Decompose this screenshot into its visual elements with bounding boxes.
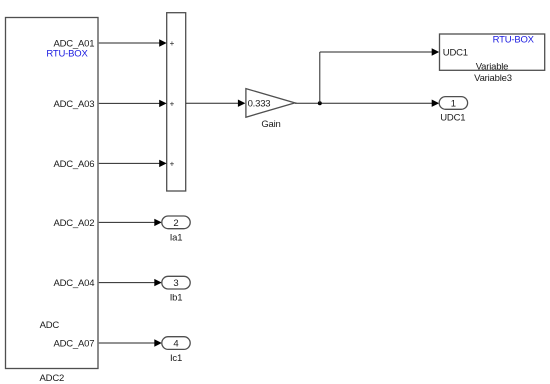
outport 2 label Ia1 bbox=[170, 232, 183, 243]
wire ADC_A06 to sum bbox=[99, 160, 167, 167]
svg-text:ADC_A07: ADC_A07 bbox=[53, 338, 94, 349]
svg-text:RTU-BOX: RTU-BOX bbox=[46, 48, 88, 59]
outport 1 label UDC1 bbox=[440, 112, 465, 123]
svg-text:Variable: Variable bbox=[476, 61, 509, 72]
wire junction up bbox=[319, 52, 321, 103]
svg-text:3: 3 bbox=[173, 278, 178, 289]
svg-text:RTU-BOX: RTU-BOX bbox=[493, 35, 535, 46]
port label ADC_A06 bbox=[53, 159, 94, 170]
port label ADC_A04 bbox=[53, 278, 94, 289]
outport 2 bbox=[162, 216, 190, 229]
port label UDC1 (inside Variable3) bbox=[443, 47, 468, 58]
block type text Variable bbox=[476, 61, 509, 72]
outport 1 bbox=[439, 97, 467, 110]
wire gain to outport 1 bbox=[295, 100, 439, 107]
port label ADC_A03 bbox=[53, 99, 94, 110]
sum plus sign input 1 bbox=[170, 39, 175, 48]
gain value 0.333 bbox=[248, 99, 271, 110]
svg-text:+: + bbox=[170, 39, 175, 48]
block name label Variable3 bbox=[474, 73, 512, 84]
block name label ADC2 bbox=[40, 373, 65, 384]
port label ADC_A07 bbox=[53, 338, 94, 349]
subsystem block ADC2 bbox=[6, 18, 99, 369]
sum plus sign input 3 bbox=[170, 159, 175, 168]
wire ADC_A07 to outport 4 bbox=[99, 339, 162, 346]
block name label Gain bbox=[261, 119, 280, 130]
svg-text:+: + bbox=[170, 159, 175, 168]
svg-text:Gain: Gain bbox=[261, 119, 280, 130]
svg-text:Ic1: Ic1 bbox=[170, 353, 182, 364]
wire ADC_A02 to outport 2 bbox=[99, 219, 162, 226]
svg-text:Ia1: Ia1 bbox=[170, 232, 183, 243]
svg-text:ADC_A04: ADC_A04 bbox=[53, 278, 94, 289]
svg-text:ADC_A06: ADC_A06 bbox=[53, 159, 94, 170]
outport 3 label Ib1 bbox=[170, 293, 183, 304]
svg-text:0.333: 0.333 bbox=[248, 99, 271, 110]
annotation RTU-BOX (inside ADC2) bbox=[46, 48, 88, 59]
outport 4 bbox=[162, 337, 190, 350]
svg-text:4: 4 bbox=[173, 339, 178, 350]
svg-text:ADC2: ADC2 bbox=[40, 373, 65, 384]
junction dot bbox=[318, 101, 322, 105]
sum plus sign input 2 bbox=[170, 99, 175, 108]
wire junction to Variable3 bbox=[320, 48, 439, 55]
svg-text:Ib1: Ib1 bbox=[170, 293, 183, 304]
wire ADC_A01 to sum bbox=[99, 39, 167, 46]
svg-text:Variable3: Variable3 bbox=[474, 73, 512, 84]
sum block bbox=[167, 13, 186, 191]
outport 4 label Ic1 bbox=[170, 353, 182, 364]
svg-text:ADC: ADC bbox=[40, 320, 60, 331]
svg-text:1: 1 bbox=[451, 98, 456, 109]
wire sum to gain bbox=[186, 100, 245, 107]
svg-text:UDC1: UDC1 bbox=[443, 47, 468, 58]
annotation RTU-BOX (inside Variable3) bbox=[493, 35, 535, 46]
svg-text:+: + bbox=[170, 99, 175, 108]
svg-text:2: 2 bbox=[173, 218, 178, 229]
port label ADC_A02 bbox=[53, 218, 94, 229]
outport 3 bbox=[162, 276, 190, 289]
svg-text:UDC1: UDC1 bbox=[440, 112, 465, 123]
block type text ADC bbox=[40, 320, 60, 331]
subsystem block Variable3 bbox=[440, 34, 545, 70]
svg-text:ADC_A03: ADC_A03 bbox=[53, 99, 94, 110]
port label ADC_A01 bbox=[53, 38, 94, 49]
svg-text:ADC_A02: ADC_A02 bbox=[53, 218, 94, 229]
gain block Gain (triangle) bbox=[246, 89, 295, 118]
wire ADC_A04 to outport 3 bbox=[99, 279, 162, 286]
wire ADC_A03 to sum bbox=[99, 100, 167, 107]
